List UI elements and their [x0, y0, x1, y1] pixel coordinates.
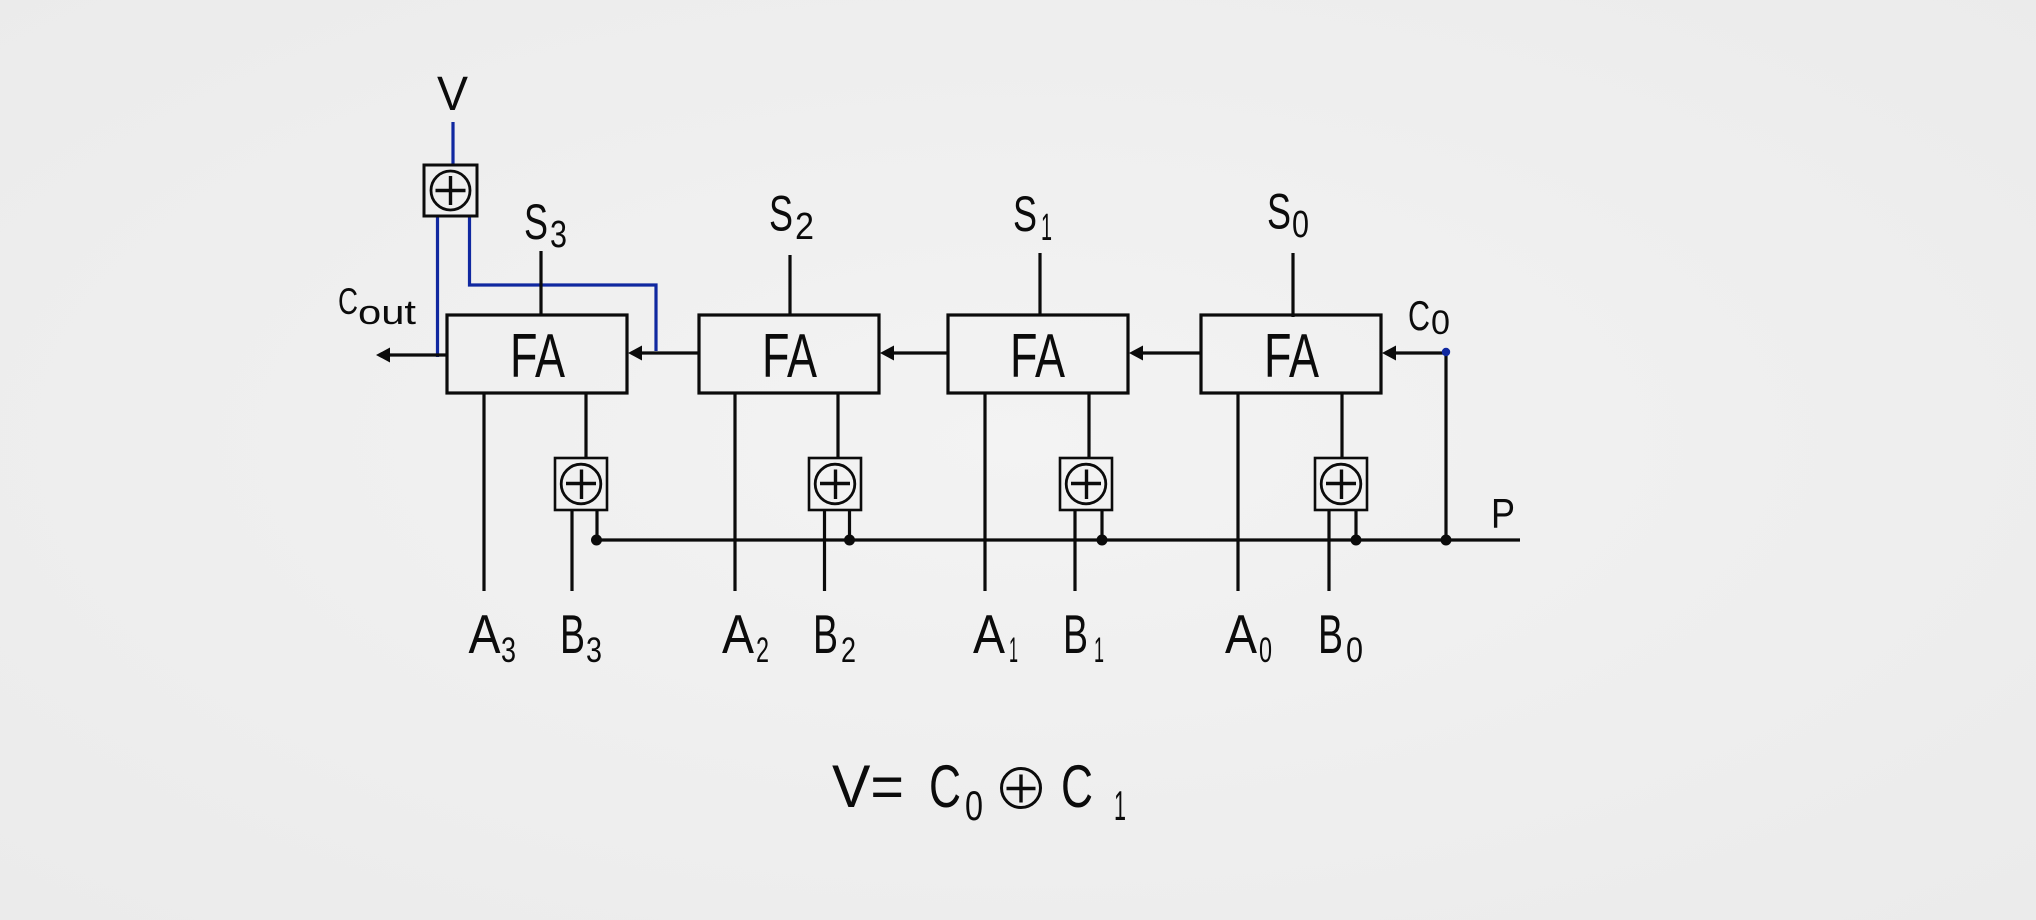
svg-text:A: A — [973, 603, 1005, 665]
svg-text:C: C — [1408, 292, 1430, 339]
svg-text:2: 2 — [756, 631, 769, 670]
svg-text:out: out — [358, 294, 417, 332]
svg-text:FA: FA — [510, 322, 565, 391]
svg-text:S: S — [769, 186, 793, 242]
svg-text:FA: FA — [1264, 322, 1319, 391]
svg-text:0: 0 — [1292, 204, 1309, 246]
svg-text:V: V — [437, 68, 468, 121]
svg-text:C: C — [1061, 753, 1093, 820]
svg-text:B: B — [1318, 603, 1343, 665]
svg-text:1: 1 — [1114, 782, 1126, 829]
svg-text:3: 3 — [550, 214, 567, 256]
svg-text:A: A — [722, 603, 754, 665]
svg-text:B: B — [813, 603, 838, 665]
svg-text:0: 0 — [965, 782, 983, 829]
svg-text:1: 1 — [1041, 207, 1052, 249]
svg-text:V=: V= — [832, 753, 904, 820]
svg-text:3: 3 — [501, 631, 516, 670]
svg-text:0: 0 — [1431, 304, 1450, 342]
svg-text:1: 1 — [1094, 631, 1104, 670]
svg-text:0: 0 — [1346, 631, 1363, 670]
svg-text:0: 0 — [1259, 631, 1272, 670]
svg-text:C: C — [929, 753, 961, 820]
svg-text:B: B — [1063, 603, 1088, 665]
svg-text:2: 2 — [795, 206, 814, 248]
svg-text:S: S — [1267, 184, 1291, 240]
svg-text:S: S — [524, 194, 548, 250]
svg-text:B: B — [560, 603, 585, 665]
svg-text:FA: FA — [762, 322, 817, 391]
svg-text:S: S — [1013, 186, 1037, 242]
svg-text:1: 1 — [1009, 631, 1018, 670]
svg-text:2: 2 — [841, 631, 856, 670]
svg-text:FA: FA — [1010, 322, 1065, 391]
svg-text:A: A — [469, 603, 501, 665]
svg-text:P: P — [1491, 490, 1515, 537]
svg-text:C: C — [338, 281, 358, 322]
svg-text:A: A — [1225, 603, 1257, 665]
svg-text:3: 3 — [586, 631, 602, 670]
